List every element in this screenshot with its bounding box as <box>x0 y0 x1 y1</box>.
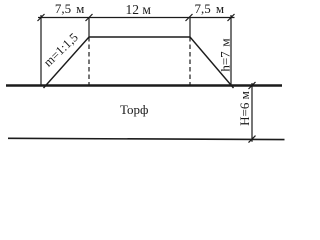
tick at x=231 (right end of 7,5 m) <box>228 14 235 21</box>
svg-text:Н=6 м: Н=6 м <box>237 91 252 126</box>
extension above top-left corner (x=89) <box>88 18 90 38</box>
dashed vertical under top-left corner <box>88 37 90 85</box>
ground line (peat surface) <box>6 84 282 87</box>
svg-text:h=7 м: h=7 м <box>218 38 233 71</box>
peat depth dimension line H=6 m (x=252) <box>251 83 253 142</box>
tick at x=89 (between 7,5 m and 12 m) <box>86 14 93 21</box>
extension line right (x=231) <box>230 15 232 86</box>
tick at bottom of H dimension <box>249 136 256 143</box>
svg-text:Торф: Торф <box>120 102 148 117</box>
dashed vertical under top-right corner <box>189 37 191 85</box>
svg-text:7,5 м: 7,5 м <box>55 1 85 16</box>
extension above top-right corner (x=190) <box>189 18 191 38</box>
embankment top edge <box>89 36 190 38</box>
tick at x=189 (between 12 m and right 7,5 m) <box>186 14 193 21</box>
svg-text:7,5 м: 7,5 м <box>195 1 225 16</box>
embankment left slope <box>44 37 90 88</box>
bottom line (peat bottom) <box>8 138 285 139</box>
tick at top of H dimension <box>249 82 256 89</box>
dimension line (top, y=17.5) <box>38 17 235 19</box>
extension line left (x=41) <box>40 15 42 86</box>
embankment right slope <box>190 37 234 88</box>
tick at x=41 (left end of 7,5 m) <box>38 14 45 21</box>
svg-text:12 м: 12 м <box>125 2 151 17</box>
